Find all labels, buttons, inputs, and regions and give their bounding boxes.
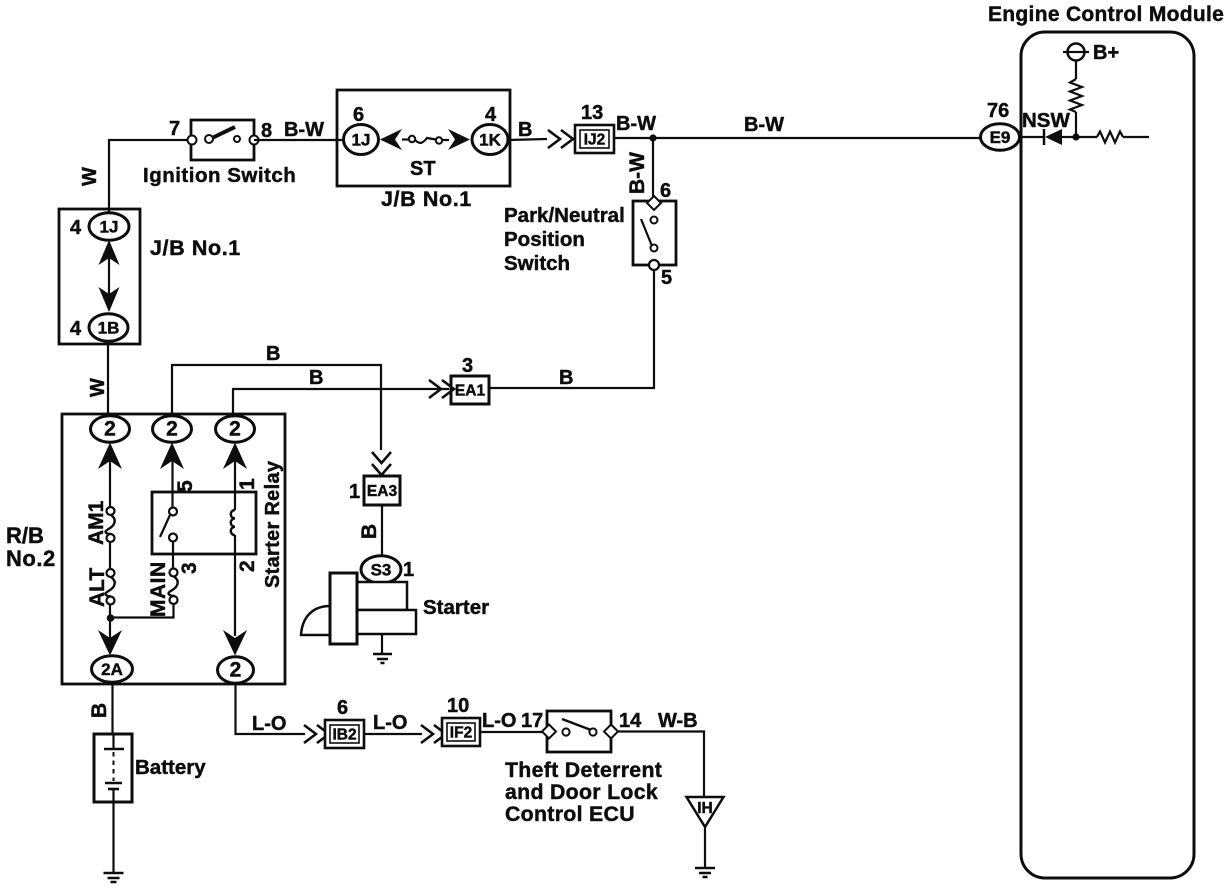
connector 2 (middle, R/B top) — [153, 416, 192, 442]
connector 2 (right, R/B top) — [216, 416, 255, 442]
wire: battery to ground — [112, 802, 114, 873]
connector 1J (pin 4, J/B No.1) — [89, 213, 129, 241]
svg-text:B-W: B-W — [744, 114, 784, 136]
wire: ignition switch pin7 to J/B No.1 1J — [109, 140, 190, 214]
wire: MAIN to ALT junction — [111, 604, 174, 618]
connector arrow up (left) — [98, 443, 122, 470]
svg-text:B: B — [358, 524, 381, 539]
connector 1K (pin 4) — [472, 125, 508, 155]
connector arrow down (to 2) — [223, 630, 247, 656]
svg-text:2A: 2A — [101, 660, 123, 679]
connector IF2 (pin 10) — [442, 718, 480, 746]
ignition switch — [188, 120, 259, 160]
B+ terminal — [1063, 44, 1089, 61]
relay switch — [160, 508, 177, 542]
connector arrow up (J/B No.1) — [99, 240, 120, 265]
connector EA1 (pin 3) — [451, 376, 489, 404]
svg-text:1: 1 — [403, 559, 414, 581]
ground (starter) — [373, 654, 392, 663]
starter motor — [301, 573, 416, 654]
svg-text:10: 10 — [447, 695, 469, 717]
svg-text:B-W: B-W — [616, 113, 656, 135]
wire: AM1 to ALT — [109, 542, 111, 569]
connector IJ2 (pin 13) — [575, 125, 614, 153]
wire: coil down to pin 2 and arrow — [234, 535, 236, 636]
svg-text:14: 14 — [619, 710, 642, 732]
svg-text:Battery: Battery — [135, 756, 206, 779]
connector IB2 (pin 6) — [325, 720, 364, 748]
svg-text:J/B No.1: J/B No.1 — [381, 187, 472, 211]
ground (IH) — [695, 868, 715, 877]
wire: 2A to battery, B — [111, 682, 113, 735]
connector 1J (pin 6) — [344, 125, 379, 155]
svg-text:6: 6 — [660, 180, 671, 202]
ground (battery) — [104, 873, 124, 882]
connector arrow down (J/B No.1) — [99, 287, 120, 312]
svg-text:5: 5 — [661, 267, 672, 289]
wire: IF2 to theft switch, L-O — [480, 731, 545, 733]
svg-text:and Door Lock: and Door Lock — [505, 780, 658, 804]
svg-text:2: 2 — [166, 418, 178, 441]
svg-text:B: B — [88, 703, 111, 718]
svg-text:1J: 1J — [100, 218, 119, 237]
svg-text:3: 3 — [178, 562, 201, 574]
wire: R/B connector 2 up over to EA3 — [172, 365, 381, 450]
connector arrow (left) in ST — [380, 129, 402, 150]
svg-text:2: 2 — [229, 418, 241, 441]
wire: 1K to IJ2, B — [508, 139, 547, 140]
svg-text:EA1: EA1 — [455, 383, 486, 400]
svg-text:W: W — [87, 378, 109, 397]
diode D1 — [1044, 129, 1062, 145]
connector arrow (right) in ST — [448, 129, 470, 150]
fuse AM1 — [106, 507, 115, 542]
park/neutral position switch — [633, 196, 676, 270]
wire: resistor to NSW node — [1075, 112, 1077, 137]
connector 2 (left, R/B top) — [91, 416, 130, 442]
wire: left 2 down to fuse AM1 — [109, 461, 111, 507]
svg-text:Ignition Switch: Ignition Switch — [143, 164, 296, 187]
battery — [94, 734, 132, 802]
double chevron into IF2 — [421, 725, 446, 743]
svg-text:76: 76 — [987, 100, 1009, 122]
svg-text:Theft Deterrent: Theft Deterrent — [505, 758, 662, 782]
wire: middle 2 into relay (pin 5) — [171, 461, 173, 508]
connector 1B (pin 4, J/B No.1) — [89, 314, 128, 342]
wire: diode to node — [1062, 136, 1097, 138]
wire: P/N pin5 down and left to EA1 — [489, 270, 654, 388]
junction node at IJ2/E9 wire — [649, 134, 656, 141]
wire between J/B halves — [108, 258, 110, 296]
svg-text:S3: S3 — [371, 561, 392, 580]
svg-text:NSW: NSW — [1022, 109, 1070, 132]
svg-text:1: 1 — [349, 481, 360, 503]
connector arrow up (right) — [223, 443, 247, 470]
R/B No.2 block — [62, 414, 285, 684]
Engine Control Module box — [1021, 32, 1194, 878]
svg-text:B: B — [309, 367, 323, 389]
svg-text:No.2: No.2 — [6, 546, 56, 571]
wire: resistor into ECM — [1123, 136, 1149, 138]
theft deterrent ECU switch — [542, 711, 618, 752]
svg-text:6: 6 — [337, 697, 348, 719]
fuse ALT — [106, 569, 115, 605]
connector S3 (pin 1) — [361, 556, 401, 584]
svg-text:Position: Position — [504, 228, 585, 251]
svg-text:8: 8 — [261, 120, 272, 142]
svg-text:L-O: L-O — [373, 712, 407, 734]
svg-text:7: 7 — [169, 118, 180, 140]
svg-text:AM1: AM1 — [85, 500, 108, 545]
connector 2 (R/B bottom) — [218, 657, 254, 683]
svg-text:L-O: L-O — [482, 710, 516, 732]
resistor (vertical, pull-up) — [1070, 79, 1082, 112]
svg-text:W: W — [79, 167, 101, 186]
svg-text:E9: E9 — [990, 128, 1011, 147]
svg-text:2: 2 — [104, 418, 116, 441]
junction node (ALT/MAIN) — [107, 614, 115, 622]
wire: relay switch to MAIN fuse (pin 3) — [172, 541, 174, 569]
connector E9 (pin 76) — [981, 124, 1020, 150]
fuse MAIN — [169, 569, 178, 605]
svg-text:4: 4 — [70, 217, 82, 239]
wire: junction down to park/neutral switch — [652, 138, 654, 198]
svg-text:B: B — [266, 343, 280, 365]
svg-text:B-W: B-W — [626, 152, 649, 194]
svg-text:1K: 1K — [479, 131, 501, 150]
svg-text:17: 17 — [521, 710, 543, 732]
svg-text:Engine Control Module: Engine Control Module — [988, 3, 1224, 26]
connector EA3 (pin 1) — [364, 476, 400, 505]
wire: right 2 into relay coil (pin 1) — [234, 461, 236, 510]
svg-text:4: 4 — [485, 104, 497, 126]
svg-text:B: B — [518, 119, 532, 141]
wire: IH to ground — [704, 827, 706, 868]
wire: EA1 left to R/B No.2 connector 2 — [233, 389, 449, 417]
connector 2A (R/B bottom) — [92, 656, 133, 682]
svg-text:ST: ST — [410, 158, 436, 180]
svg-text:1B: 1B — [98, 319, 120, 338]
svg-text:Starter: Starter — [423, 596, 489, 619]
svg-text:ALT: ALT — [86, 568, 109, 607]
wire: E9 into ECM — [1019, 136, 1043, 138]
svg-text:5: 5 — [174, 480, 197, 492]
svg-text:1: 1 — [236, 478, 259, 490]
svg-text:IJ2: IJ2 — [584, 132, 606, 149]
svg-text:2: 2 — [230, 659, 242, 682]
svg-text:Control ECU: Control ECU — [505, 802, 635, 826]
starter relay box — [152, 492, 256, 554]
svg-text:1J: 1J — [352, 131, 371, 150]
wire: 2 down and right to IB2, L-O — [236, 683, 306, 734]
wire: IB2 to IF2, L-O — [364, 733, 422, 735]
svg-text:Starter Relay: Starter Relay — [262, 460, 284, 588]
svg-text:IF2: IF2 — [450, 725, 472, 742]
svg-text:IB2: IB2 — [332, 727, 356, 744]
svg-text:B-W: B-W — [284, 119, 324, 141]
double chevron into EA1 — [429, 380, 454, 398]
svg-text:6: 6 — [353, 104, 364, 126]
svg-text:EA3: EA3 — [367, 483, 398, 500]
ground IH (triangle) — [687, 797, 724, 827]
double chevron into IJ2 — [548, 130, 573, 148]
double chevron into EA3 (down) — [372, 452, 391, 475]
double chevron into IB2 — [304, 725, 329, 743]
junction node (NSW) — [1072, 133, 1079, 140]
svg-text:B: B — [559, 367, 573, 389]
svg-text:Park/Neutral: Park/Neutral — [504, 204, 625, 227]
wire: 1B down to R/B No.2 — [107, 341, 109, 417]
svg-text:4: 4 — [70, 318, 82, 340]
svg-text:IH: IH — [697, 800, 713, 817]
svg-text:J/B No.1: J/B No.1 — [150, 236, 241, 260]
wire: theft switch to IH ground — [618, 732, 704, 799]
svg-text:R/B: R/B — [6, 523, 44, 548]
wire: ALT down to junction and down-arrow — [109, 604, 111, 640]
svg-text:W-B: W-B — [658, 710, 698, 732]
wire: B+ to resistor — [1075, 60, 1077, 79]
svg-text:3: 3 — [462, 355, 473, 377]
wire: EA3 to S3, B — [381, 505, 383, 556]
svg-text:L-O: L-O — [252, 713, 286, 735]
resistor (horizontal) — [1097, 132, 1123, 143]
connector arrow up (middle) — [160, 443, 184, 470]
svg-text:13: 13 — [581, 102, 603, 124]
wire: IJ2 to E9, B-W — [614, 137, 981, 139]
svg-text:B+: B+ — [1093, 42, 1119, 64]
J/B No.1 block (left) — [59, 209, 140, 344]
wire: ignition pin8 to ST block, B-W — [254, 139, 343, 141]
svg-text:Switch: Switch — [504, 252, 570, 275]
connector arrow down (to 2A) — [98, 630, 122, 656]
relay coil — [231, 510, 235, 535]
svg-text:2: 2 — [236, 560, 259, 572]
svg-text:MAIN: MAIN — [147, 561, 170, 617]
ST internal switch wire — [402, 136, 449, 144]
J/B No.1 block (ST) — [337, 90, 510, 186]
